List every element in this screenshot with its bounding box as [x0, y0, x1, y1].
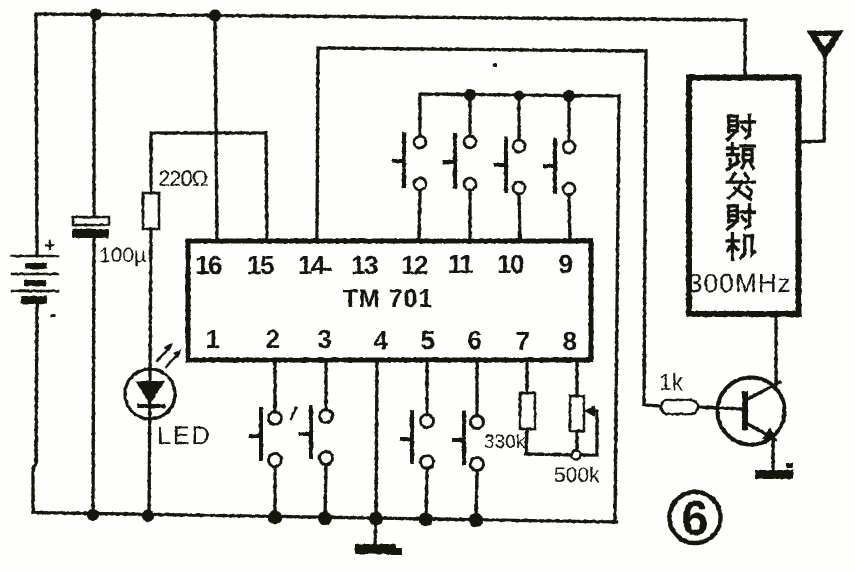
wire 330k bottom to wiper node — [526, 429, 571, 455]
svg-text:100µ: 100µ — [99, 244, 146, 267]
resistor R1 220ohm — [143, 166, 208, 229]
svg-text:330k: 330k — [484, 432, 526, 453]
capacitor C1 100u — [72, 217, 146, 267]
svg-text:300MHz: 300MHz — [688, 268, 792, 298]
pushbutton S2 (pin 11) — [445, 135, 476, 241]
junction dot rail/button S3 — [514, 91, 524, 101]
chinese label: she (radio) char 1 — [728, 115, 755, 139]
wire 1k to transistor base — [698, 407, 742, 409]
wire battery negative lead — [33, 301, 37, 512]
svg-text:1: 1 — [206, 324, 220, 354]
scan speck — [493, 63, 497, 67]
wire pin 7 to 330k — [525, 360, 528, 393]
stray mark — [291, 408, 296, 419]
pushbutton S4 (pin 9) — [545, 96, 575, 242]
svg-text:8: 8 — [563, 326, 577, 356]
svg-text:TM 701: TM 701 — [343, 285, 434, 313]
wire common rail down right side to ground bus — [615, 96, 619, 521]
svg-text:-: - — [50, 304, 57, 326]
chinese label: ji (machine) char 5 — [728, 234, 755, 260]
chinese label: fa (transmit) char 3 — [728, 174, 755, 200]
transistor Q1 — [718, 316, 785, 470]
svg-text:2: 2 — [266, 324, 280, 354]
pushbutton S5 (pin 2) — [251, 360, 282, 517]
wire battery positive lead — [36, 14, 37, 254]
chinese label: she (radio) char 4 — [728, 205, 755, 229]
LED D1 — [125, 343, 212, 450]
pushbutton S7 (pin 5) — [402, 361, 434, 520]
svg-text:LED: LED — [157, 422, 212, 450]
svg-text:5: 5 — [421, 325, 435, 355]
junction dot top bus / pin16 wire — [209, 10, 221, 22]
svg-text:15: 15 — [247, 250, 274, 280]
junction dot ground bus / S5 — [268, 510, 282, 524]
junction dot rail/button S2 — [464, 89, 476, 101]
junction dot top bus / capacitor — [90, 9, 102, 21]
junction dot ground bus / LED — [142, 510, 154, 522]
svg-text:+: + — [44, 235, 56, 257]
pushbutton S6 (pin 3) — [301, 360, 333, 518]
chinese label: pin (frequency) char 2 — [728, 144, 755, 170]
svg-text:500k: 500k — [554, 464, 600, 487]
IC U1 TM701 — [188, 241, 591, 360]
wire pin 16 to top bus — [215, 15, 217, 241]
svg-text:1k: 1k — [659, 369, 684, 395]
wire capacitor bottom lead — [93, 238, 94, 515]
wire top bus to RF box — [743, 20, 746, 77]
junction dot rail/button S4 — [563, 90, 575, 102]
svg-text:10: 10 — [497, 249, 524, 279]
wire pin 15 branch: up and left to 220 ohm resistor — [151, 133, 267, 241]
pushbutton S3 (pin 10) — [496, 96, 525, 242]
svg-text:4: 4 — [374, 325, 389, 355]
junction dot ground bus / S8 — [469, 513, 483, 527]
wire pin 8 to 500k — [575, 360, 578, 396]
junction dot ground bus / S6 — [318, 511, 332, 525]
junction dot ground bus / pin4 ground — [369, 512, 383, 526]
wire resistor to LED — [149, 229, 151, 516]
antenna — [799, 32, 841, 142]
svg-text:3: 3 — [318, 324, 332, 354]
wire top buttons common rail — [420, 94, 619, 136]
wire capacitor top lead — [92, 15, 95, 217]
pushbutton S1 (pin 12) — [394, 96, 470, 241]
svg-text:13: 13 — [351, 250, 378, 280]
junction dot ground bus / capacitor — [87, 509, 99, 521]
resistor R4 1k — [659, 369, 698, 414]
IC pin number labels and part label TM701 — [195, 249, 576, 356]
wire bottom ground bus — [33, 513, 616, 523]
svg-text:9: 9 — [559, 249, 573, 279]
ground symbol main — [355, 519, 402, 555]
potentiometer R3 500k — [554, 396, 600, 487]
svg-text:6: 6 — [681, 492, 708, 546]
wire pin 4 to ground bus — [376, 360, 377, 519]
scan tick near emitter ground — [786, 463, 793, 468]
svg-text:16: 16 — [195, 250, 222, 280]
pushbutton S8 (pin 6) — [454, 361, 484, 520]
svg-text:6: 6 — [468, 325, 482, 355]
resistor R2 330k — [484, 393, 535, 453]
ground symbol emitter — [755, 470, 793, 479]
RF transmitter module box — [689, 78, 799, 315]
battery B1 — [12, 235, 58, 326]
wire top supply bus — [37, 14, 746, 20]
wire keypad box: pin14 up, across top, down right side to 1k resistor — [317, 48, 660, 406]
svg-text:220Ω: 220Ω — [158, 166, 208, 191]
svg-text:12: 12 — [401, 250, 428, 280]
svg-text:14: 14 — [298, 250, 326, 280]
figure number 6 — [670, 492, 721, 546]
svg-text:7: 7 — [516, 326, 530, 356]
svg-text:11: 11 — [448, 249, 474, 279]
junction dot ground bus / S7 — [419, 512, 433, 526]
